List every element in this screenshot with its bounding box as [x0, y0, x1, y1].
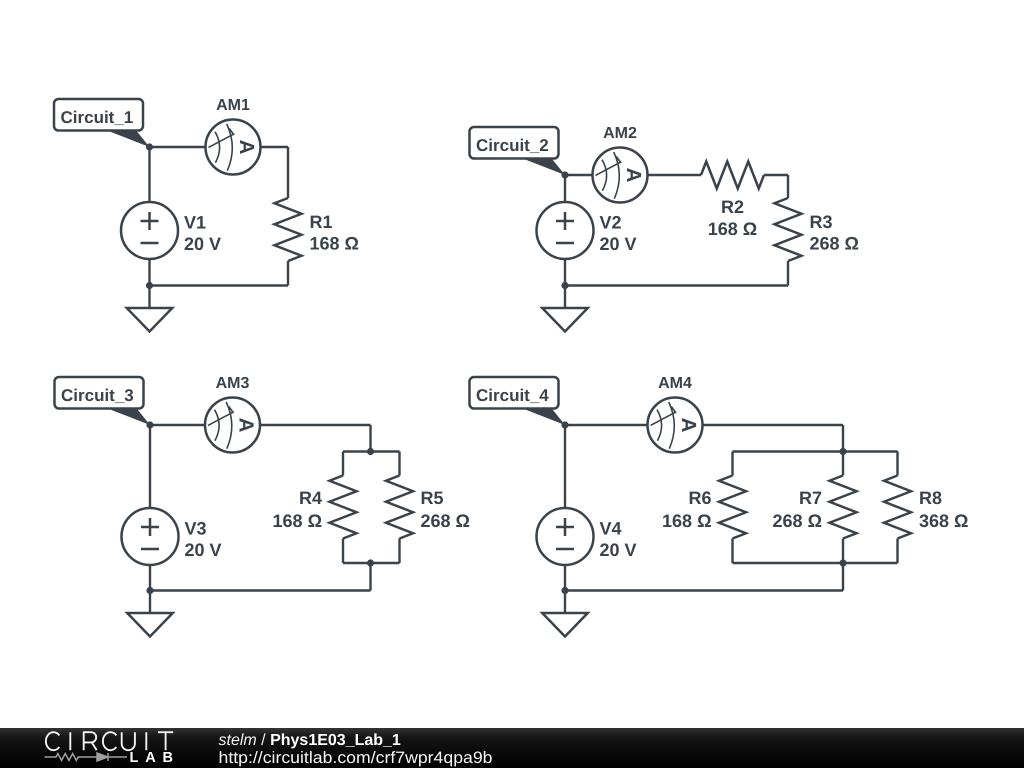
wire: rail to R8 top	[896, 452, 898, 476]
wire: node through ammeter to R2 left (C2)	[565, 174, 701, 176]
svg-text:AM4: AM4	[658, 375, 692, 392]
node: C4 parallel bottom	[839, 559, 846, 566]
svg-text:LAB: LAB	[130, 750, 174, 766]
flag label Circuit_1	[54, 99, 150, 147]
resistor R2	[701, 162, 764, 189]
svg-text:20 V: 20 V	[185, 540, 222, 560]
wire: corner down to R3 top	[787, 175, 789, 198]
wire: R2 right to corner	[764, 174, 788, 176]
wire: V3 bottom to ground node	[149, 565, 151, 591]
ground C2	[542, 286, 588, 332]
node: C4 V4+ / ammeter input	[561, 421, 568, 428]
node: C2 ground node	[561, 282, 568, 289]
svg-text:R3: R3	[810, 212, 833, 232]
svg-text:A: A	[235, 140, 258, 155]
node: C3 ground node	[146, 587, 153, 594]
wire: rail to R5 top	[398, 452, 400, 476]
resistor R7	[830, 476, 857, 539]
svg-text:Circuit_1: Circuit_1	[61, 108, 134, 127]
wire: parallel bottom rail C4	[733, 562, 898, 564]
node: C1 ground node	[146, 282, 153, 289]
wire: rail down to bottom rail	[842, 563, 844, 591]
wire: node through ammeter to corner (top, C4)	[565, 424, 843, 426]
wire: corner down to R1 top	[287, 147, 289, 198]
node: C3 V3+ / ammeter input	[146, 421, 153, 428]
svg-text:268 Ω: 268 Ω	[421, 511, 470, 531]
svg-text:AM1: AM1	[216, 97, 250, 114]
svg-text:R1: R1	[310, 212, 333, 232]
ground C1	[127, 286, 173, 332]
voltage source V2	[537, 202, 594, 259]
ground C4	[542, 591, 588, 637]
wire: rail to R4 top	[342, 452, 344, 476]
svg-text:168 Ω: 168 Ω	[662, 511, 711, 531]
node: C3 parallel top	[367, 448, 374, 455]
wire: bottom rail C1	[150, 284, 289, 286]
wire: node down to V4 top	[564, 425, 566, 508]
ammeter AM1	[206, 120, 261, 175]
node: C1 V1+ / ammeter input	[146, 143, 153, 150]
svg-text:R2: R2	[721, 197, 744, 217]
ammeter AM3	[205, 398, 260, 453]
svg-text:168 Ω: 168 Ω	[708, 219, 757, 239]
svg-text:R4: R4	[299, 488, 322, 508]
svg-text:V3: V3	[185, 518, 207, 538]
svg-text:Circuit_2: Circuit_2	[476, 136, 549, 155]
wire: node down to V2 top	[564, 175, 566, 202]
wire: node down to V3 top	[149, 425, 151, 508]
wire: node down to V1 top	[148, 147, 150, 202]
svg-text:Circuit_4: Circuit_4	[476, 386, 549, 405]
resistor R3	[775, 198, 802, 261]
svg-text:R5: R5	[421, 488, 444, 508]
svg-text:368 Ω: 368 Ω	[919, 511, 968, 531]
svg-text:V2: V2	[600, 212, 622, 232]
node: C4 parallel top	[839, 448, 846, 455]
wire: R6 bottom to rail	[731, 539, 733, 564]
wire: bottom rail C3	[150, 589, 371, 591]
wire: corner down to parallel top rail	[369, 425, 371, 452]
ground C3	[127, 591, 173, 637]
wire: R7 bottom to rail	[842, 539, 844, 564]
svg-text:A: A	[622, 168, 645, 183]
resistor R5	[386, 476, 413, 539]
voltage source V4	[537, 508, 594, 565]
svg-text:20 V: 20 V	[184, 234, 221, 254]
svg-text:AM3: AM3	[216, 375, 250, 392]
svg-text:20 V: 20 V	[600, 540, 637, 560]
svg-text:20 V: 20 V	[600, 234, 637, 254]
voltage source V3	[122, 508, 179, 565]
wire: V1 bottom to ground node	[148, 259, 150, 286]
CircuitLab logo schematic squiggle (resistor + diode)	[45, 753, 128, 761]
wire: rail down to bottom rail	[369, 563, 371, 591]
flag label Circuit_4	[470, 377, 566, 425]
svg-text:R6: R6	[688, 488, 711, 508]
wire: node to ammeter to corner (top, C1)	[150, 146, 289, 148]
node: C3 parallel bottom	[367, 559, 374, 566]
wire: parallel bottom rail C3	[343, 562, 400, 564]
wire: parallel top rail C3	[343, 450, 400, 452]
wire: R1 bottom to bottom rail	[287, 261, 289, 286]
voltage source V1	[121, 202, 178, 259]
flag label Circuit_2	[470, 127, 566, 175]
node: C4 ground node	[561, 587, 568, 594]
svg-text:A: A	[677, 418, 700, 433]
wire: bottom rail C4	[565, 589, 843, 591]
svg-text:R7: R7	[799, 488, 822, 508]
svg-text:Circuit_3: Circuit_3	[61, 386, 134, 405]
resistor R1	[275, 198, 302, 261]
wire: V2 bottom to ground node	[564, 259, 566, 286]
svg-text:268 Ω: 268 Ω	[773, 511, 822, 531]
wire: bottom rail C2	[565, 284, 788, 286]
svg-text:AM2: AM2	[603, 125, 637, 142]
wire: rail to R6 top	[731, 452, 733, 476]
CircuitLab logo wordmark CIRCUIT	[46, 732, 173, 750]
svg-text:268 Ω: 268 Ω	[810, 234, 859, 254]
wire: R3 bottom to bottom rail	[787, 261, 789, 286]
svg-text:V1: V1	[184, 212, 206, 232]
resistor R6	[719, 476, 746, 539]
resistor R4	[330, 476, 357, 539]
wire: parallel top rail C4	[733, 450, 898, 452]
svg-text:http://circuitlab.com/crf7wpr4: http://circuitlab.com/crf7wpr4qpa9b	[219, 749, 493, 767]
ammeter AM4	[648, 398, 703, 453]
ammeter AM2	[593, 148, 648, 203]
wire: corner down to parallel top rail	[842, 425, 844, 452]
node: C2 V2+ / ammeter input	[561, 171, 568, 178]
svg-text:stelm / Phys1E03_Lab_1: stelm / Phys1E03_Lab_1	[219, 732, 401, 749]
wire: R5 bottom to rail	[398, 539, 400, 564]
wire: R4 bottom to rail	[342, 539, 344, 564]
wire: R8 bottom to rail	[896, 539, 898, 564]
wire: rail to R7 top	[842, 452, 844, 476]
footer bar	[0, 728, 1024, 768]
svg-text:R8: R8	[919, 488, 942, 508]
svg-text:168 Ω: 168 Ω	[273, 511, 322, 531]
wire: node through ammeter to corner (top, C3)	[150, 424, 371, 426]
wire: V4 bottom to ground node	[564, 565, 566, 591]
svg-text:V4: V4	[600, 518, 622, 538]
flag label Circuit_3	[55, 377, 151, 425]
svg-text:168 Ω: 168 Ω	[310, 234, 359, 254]
svg-text:A: A	[235, 418, 258, 433]
resistor R8	[884, 476, 911, 539]
